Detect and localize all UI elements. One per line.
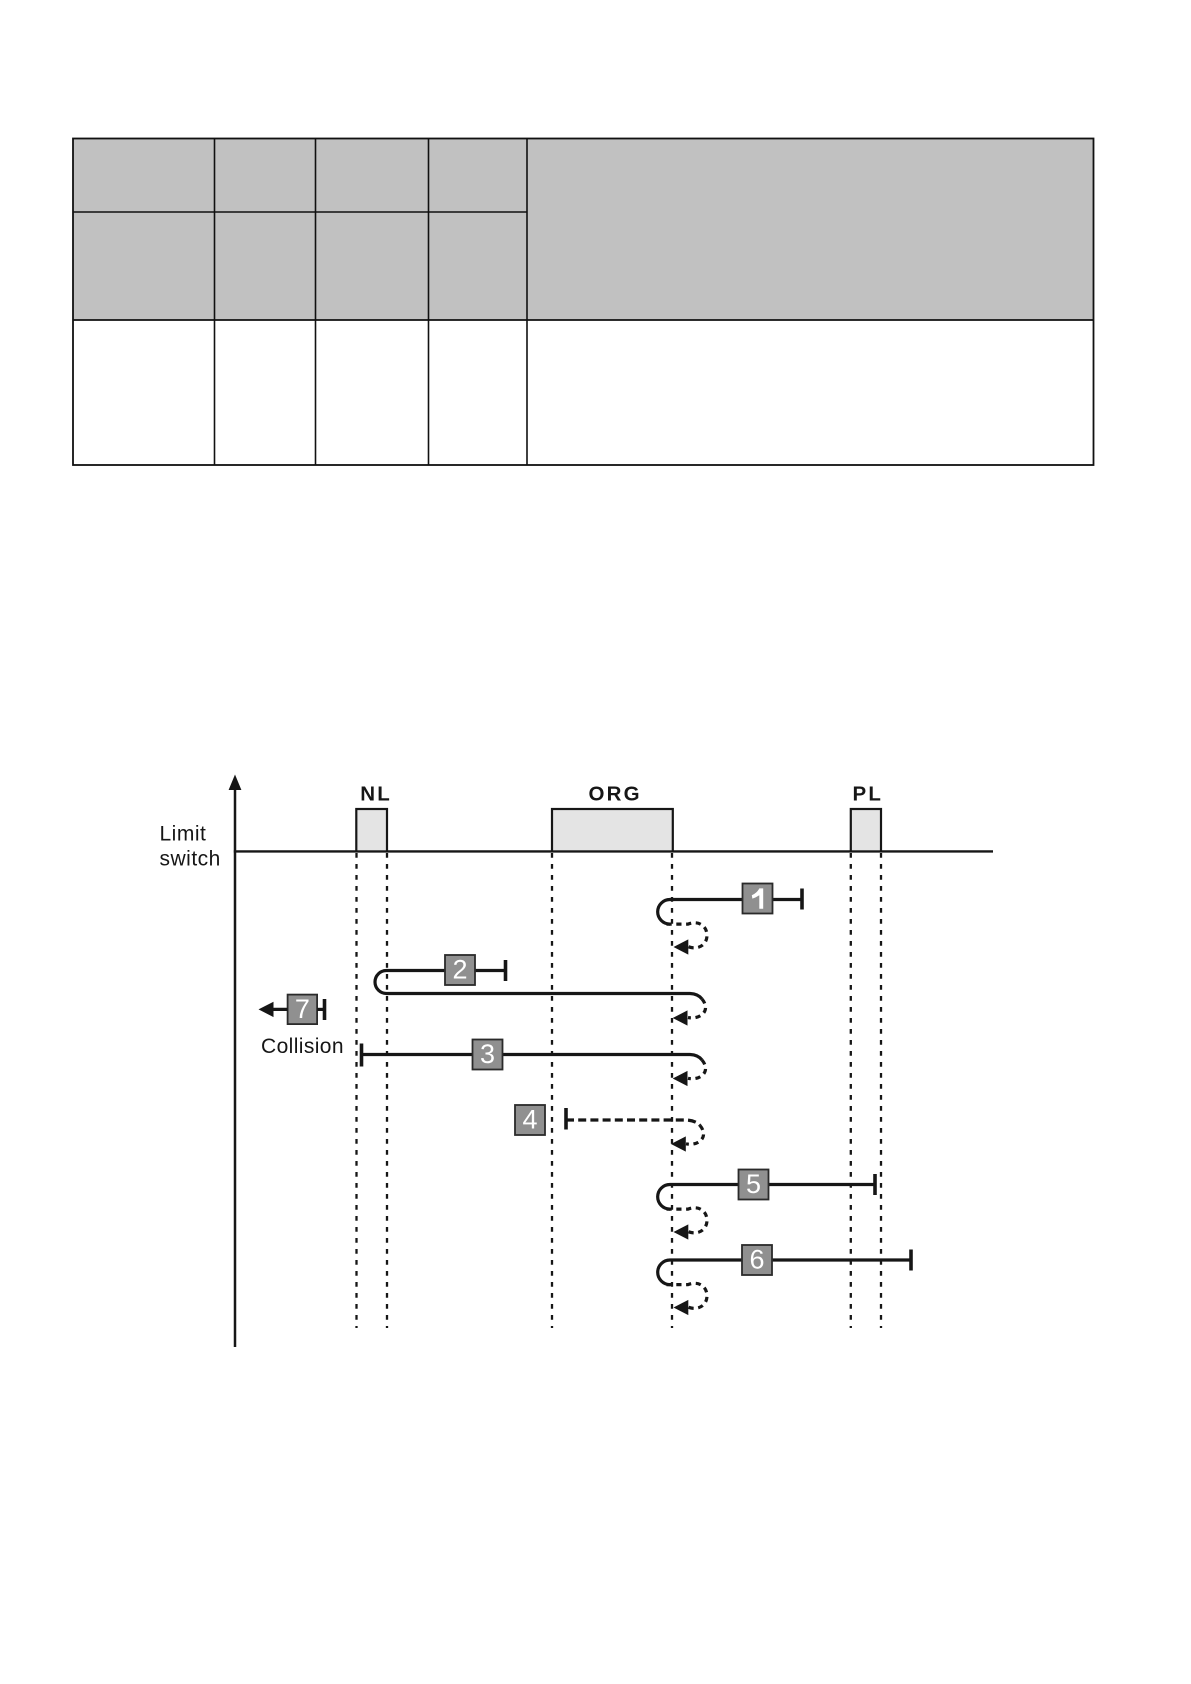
svg-text:7: 7	[295, 994, 310, 1024]
sequence 5 number box	[739, 1170, 769, 1200]
svg-text:6: 6	[749, 1245, 764, 1275]
sequence 3 solid line	[362, 1055, 703, 1061]
dashed vertical line PL right	[880, 853, 882, 1328]
sequence 4 number box	[515, 1105, 545, 1135]
sequence 4 dashed return arc	[686, 1126, 704, 1145]
table column line 3	[428, 139, 430, 466]
sequence 2 end bar	[504, 960, 508, 981]
svg-text:5: 5	[746, 1169, 761, 1199]
table header gray background	[73, 139, 1094, 321]
table column line 4	[526, 139, 528, 466]
dashed vertical line NL right	[386, 853, 388, 1328]
svg-text:3: 3	[480, 1039, 495, 1069]
sequence 6 end bar	[909, 1250, 913, 1271]
sequence 3 number box	[473, 1040, 503, 1070]
svg-text:Collision: Collision	[261, 1035, 344, 1058]
dashed vertical line NL left	[355, 853, 357, 1328]
sequence 5 arrowhead	[674, 1224, 689, 1239]
sequence 1 dashed return arc	[667, 923, 708, 948]
svg-text:4: 4	[522, 1105, 537, 1135]
svg-text:ORG: ORG	[588, 783, 641, 806]
sequence 5 end bar	[873, 1174, 877, 1195]
sequence 1 solid line with hook	[658, 900, 802, 925]
table header row separator	[73, 211, 527, 213]
svg-text:2: 2	[452, 955, 467, 985]
svg-text:switch: switch	[160, 848, 221, 871]
sequence 3 arrowhead	[673, 1071, 688, 1086]
svg-text:Limit: Limit	[160, 823, 207, 846]
limit switch horizontal line	[234, 850, 993, 852]
sequence 2 dashed return arc	[688, 999, 706, 1018]
sequence 7 left arrow line	[271, 1008, 288, 1011]
dashed vertical line PL left	[850, 853, 852, 1328]
table column line 2	[315, 139, 317, 466]
sequence 6 solid line with hook	[658, 1260, 911, 1285]
sequence 4 dashed line	[566, 1120, 700, 1126]
sequence 7 right bar	[317, 1008, 323, 1011]
PL switch block	[851, 809, 881, 851]
sequence 5 dashed return arc	[667, 1208, 708, 1233]
vertical axis	[234, 788, 237, 1347]
svg-text:PL: PL	[852, 783, 883, 806]
svg-text:NL: NL	[360, 783, 392, 806]
sequence 7 number box	[288, 995, 318, 1025]
ORG switch block	[552, 809, 673, 851]
sequence 3 start bar	[360, 1044, 364, 1067]
sequence 2 arrowhead	[673, 1010, 688, 1025]
sequence 4 arrowhead	[671, 1136, 686, 1151]
sequence 7 arrowhead	[259, 1002, 274, 1017]
sequence 5 solid line with hook	[658, 1185, 875, 1210]
dashed vertical line ORG right	[671, 853, 673, 1328]
NL switch block	[356, 809, 387, 851]
table header bottom line	[73, 319, 1094, 321]
sequence 2 number box	[445, 955, 475, 985]
dashed vertical line ORG left	[551, 853, 553, 1328]
sequence 1 number box	[743, 884, 773, 914]
sequence 6 arrowhead	[674, 1300, 689, 1315]
sequence 6 number box	[742, 1245, 772, 1275]
sequence 4 start bar	[564, 1108, 568, 1130]
table outer border	[73, 139, 1094, 466]
sequence 3 dashed return arc	[688, 1060, 706, 1079]
sequence 1 arrowhead	[674, 939, 689, 954]
sequence 6 dashed return arc	[667, 1283, 708, 1308]
axis arrowhead	[229, 775, 242, 791]
sequence 2 solid line with U-turn	[375, 971, 702, 1000]
sequence 1 start bar	[800, 889, 804, 910]
table column line 1	[214, 139, 216, 466]
